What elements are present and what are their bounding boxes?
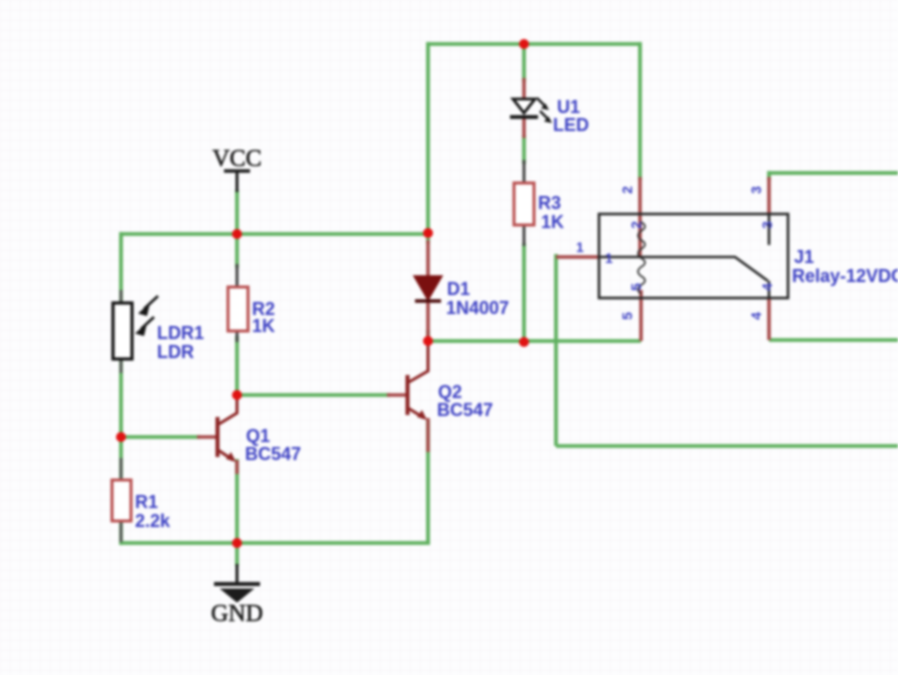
svg-text:BC547: BC547 <box>437 400 493 420</box>
svg-text:3: 3 <box>759 221 775 229</box>
svg-text:3: 3 <box>748 186 764 194</box>
transistor Q2 <box>387 343 428 452</box>
wire LED column <box>522 42 526 82</box>
svg-text:2: 2 <box>619 186 635 194</box>
relay pin number 5 (outside) <box>619 312 635 320</box>
label LDR1 <box>157 323 204 343</box>
node top rail / LED column <box>519 39 529 49</box>
relay pin number 4 (outside) <box>748 312 764 320</box>
transistor Q1 <box>197 396 237 474</box>
node Q1 collector / R2 bottom <box>232 390 242 400</box>
svg-text:1K: 1K <box>252 316 275 336</box>
label R1 <box>135 492 158 512</box>
svg-text:4: 4 <box>748 312 764 320</box>
wire LED to R3 <box>522 135 526 164</box>
value label BC547 (Q2) <box>437 400 493 420</box>
relay pin name 4 (inside) <box>759 283 775 291</box>
svg-text:1K: 1K <box>541 212 564 232</box>
value label LDR <box>157 342 194 362</box>
node VCC rail / R2 top <box>232 229 242 239</box>
relay pin number 1 (outside) <box>576 239 584 255</box>
svg-text:1: 1 <box>605 250 613 266</box>
svg-text:R1: R1 <box>135 492 158 512</box>
value label Relay-12VDC <box>792 266 898 286</box>
label R2 <box>252 299 275 319</box>
wire left rail to Q1 base <box>121 435 200 439</box>
svg-text:GND: GND <box>211 601 263 627</box>
wire D1 bottom to mid node <box>426 330 430 343</box>
resistor R1 pins <box>120 458 123 542</box>
wire R2 top <box>235 234 239 268</box>
wire top rail <box>427 42 640 46</box>
svg-text:BC547: BC547 <box>245 444 301 464</box>
wire D1 top <box>426 233 430 244</box>
svg-text:Q1: Q1 <box>246 426 270 446</box>
svg-text:LDR: LDR <box>157 342 194 362</box>
svg-text:VCC: VCC <box>212 146 261 172</box>
node D1 bottom / Q2 collector <box>423 336 433 346</box>
resistor R3 body <box>514 183 534 225</box>
node R3 bottom / mid rail <box>519 337 529 347</box>
node VCC rail / D1 column <box>423 228 433 238</box>
value label 1K <box>252 316 275 336</box>
diode D1 pins <box>426 240 430 337</box>
wire from top rail down to VCC rail (D1 column top) <box>426 42 430 236</box>
wire bottom rail <box>121 541 430 545</box>
label R3 <box>538 193 561 213</box>
wire Q1 emitter to bottom rail <box>235 459 239 543</box>
svg-text:2.2k: 2.2k <box>135 511 171 531</box>
wire Q2 emitter to bottom rail <box>426 420 430 543</box>
relay pin name 2 (inside) <box>628 221 644 229</box>
diode D1 body <box>414 276 442 301</box>
wire VCC stem lower part <box>235 190 239 236</box>
power VCC symbol <box>212 146 261 192</box>
wire R3 bottom to mid rail <box>522 243 526 344</box>
wire relay pin1 down <box>554 254 558 446</box>
label D1 <box>447 279 470 299</box>
resistor LDR1 pins <box>120 290 123 373</box>
svg-text:1: 1 <box>576 239 584 255</box>
wire mid rail to relay pin5 <box>428 339 641 343</box>
svg-text:1N4007: 1N4007 <box>446 298 509 318</box>
wire Q1 collector to Q2 base <box>237 393 390 397</box>
svg-text:2: 2 <box>628 221 644 229</box>
value label LED <box>553 115 589 135</box>
wire relay pin4 to right edge <box>769 338 898 342</box>
relay pin number 3 (outside) <box>748 186 764 194</box>
resistor LDR1 body <box>113 303 132 359</box>
wire top rail down to relay pin2 <box>638 42 642 180</box>
wire left rail <box>119 232 123 545</box>
node bottom rail / GND <box>232 538 242 548</box>
svg-text:U1: U1 <box>557 97 580 117</box>
ground symbol <box>211 543 263 627</box>
value label 1K (R3) <box>541 212 564 232</box>
LED U1 body <box>510 99 538 117</box>
resistor R2 body <box>228 287 248 331</box>
relay pin name 3 (inside) <box>759 221 775 229</box>
svg-text:D1: D1 <box>447 279 470 299</box>
LDR1 light arrows <box>135 296 158 336</box>
wire R2 bottom to Q1 collector node <box>235 336 239 397</box>
resistor R1 body <box>112 480 131 521</box>
resistor R2 pins <box>236 264 239 342</box>
label Q2 <box>438 382 462 402</box>
svg-text:4: 4 <box>759 283 775 291</box>
relay J1 body <box>599 214 788 298</box>
wire bottom right to edge <box>556 444 898 448</box>
wire relay pin3 to right edge <box>769 171 898 180</box>
svg-text:5: 5 <box>628 283 644 291</box>
value label BC547 (Q1) <box>245 444 301 464</box>
svg-text:J1: J1 <box>794 247 814 267</box>
relay pin name 1 (inside) <box>605 250 613 266</box>
svg-text:Q2: Q2 <box>438 382 462 402</box>
svg-text:R3: R3 <box>538 193 561 213</box>
wire VCC rail <box>121 232 428 236</box>
value label 2.2k <box>135 511 171 531</box>
relay pin number 2 (outside) <box>619 186 635 194</box>
node left rail / Q1 base <box>116 432 126 442</box>
svg-text:LDR1: LDR1 <box>157 323 204 343</box>
svg-text:Relay-12VDC: Relay-12VDC <box>792 266 898 286</box>
resistor R3 pins <box>523 160 526 246</box>
label U1 <box>557 97 580 117</box>
relay J1 pin stubs <box>556 177 769 341</box>
svg-text:LED: LED <box>553 115 589 135</box>
LED U1 pins <box>522 78 526 138</box>
LED U1 arrows <box>537 98 552 123</box>
relay pin name 5 (inside) <box>628 283 644 291</box>
label J1 <box>794 247 814 267</box>
svg-text:5: 5 <box>619 312 635 320</box>
label Q1 <box>246 426 270 446</box>
value label 1N4007 <box>446 298 509 318</box>
